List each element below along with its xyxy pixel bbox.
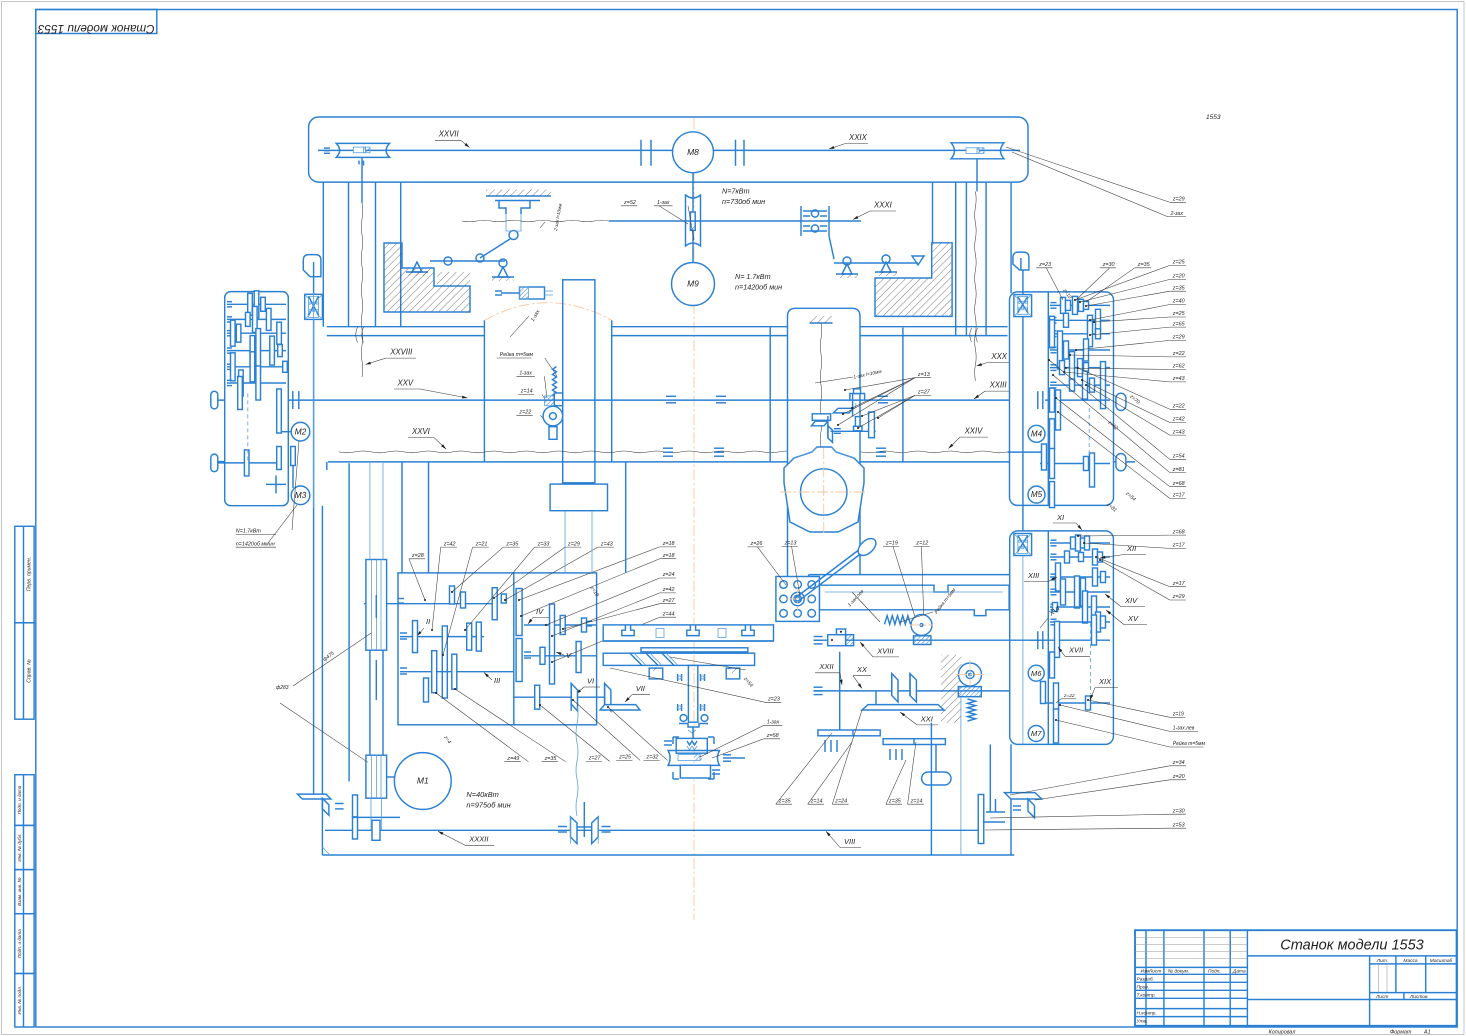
gears on shaft VI: [535, 685, 540, 709]
svg-text:Масса: Масса: [1403, 958, 1418, 964]
octagon crosshair: [780, 491, 868, 493]
column side marks lower: [677, 704, 679, 711]
svg-text:n=730об мин: n=730об мин: [722, 197, 765, 206]
svg-text:z=14: z=14: [520, 389, 533, 395]
belt down to shaft XXXII: [370, 798, 372, 830]
svg-text:z=68: z=68: [1172, 481, 1185, 487]
right tab bracket: [1013, 252, 1029, 270]
svg-text:XIX: XIX: [1098, 677, 1112, 686]
left stamp: Inv. No podl.: [15, 974, 34, 1028]
svg-text:XXIII: XXIII: [989, 381, 1008, 390]
svg-text:z=35: z=35: [1172, 285, 1186, 291]
right gearbox 1 housing: [1010, 292, 1114, 506]
svg-text:z=17: z=17: [1172, 493, 1186, 499]
svg-text:z=22: z=22: [1063, 693, 1075, 699]
svg-text:z=65: z=65: [1172, 321, 1186, 327]
svg-text:VII: VII: [636, 684, 645, 693]
svg-text:z=19: z=19: [885, 541, 898, 547]
saddle bar: [603, 653, 754, 665]
svg-text:Н.контр.: Н.контр.: [1137, 1011, 1157, 1017]
gears on shaft II: [413, 621, 418, 653]
screw bracket: [679, 724, 708, 728]
svg-text:Формат: Формат: [1390, 1030, 1412, 1036]
svg-text:М2: М2: [295, 426, 307, 436]
svg-text:Подп. и дата: Подп. и дата: [17, 929, 22, 958]
svg-text:z=42: z=42: [1172, 417, 1185, 423]
svg-text:z=43: z=43: [1172, 429, 1185, 435]
bottom gear 1 teeth: [824, 740, 826, 752]
bed hatch left: [384, 243, 470, 312]
svg-text:VI: VI: [587, 676, 594, 685]
svg-text:z=43: z=43: [600, 541, 613, 547]
hanger joint circle: [509, 231, 518, 240]
shaft XVIII: [814, 639, 1040, 641]
svg-text:z=22: z=22: [1172, 404, 1185, 410]
svg-text:n=975об мин: n=975об мин: [466, 800, 510, 809]
left screw line through gearbox: [313, 292, 315, 508]
selector lever: [796, 549, 860, 598]
apron upper rail: [809, 574, 1010, 576]
svg-text:Станок модели 1553: Станок модели 1553: [1280, 938, 1424, 954]
svg-text:N= 1.7кВт: N= 1.7кВт: [735, 272, 771, 281]
motor M9: [672, 263, 715, 306]
svg-text:М5: М5: [1031, 490, 1043, 499]
svg-text:z=27: z=27: [917, 390, 931, 396]
svg-text:z=29: z=29: [1172, 335, 1185, 341]
right linkage joints: [843, 257, 851, 265]
svg-text:z=14: z=14: [810, 798, 823, 804]
right linkage link: [829, 236, 834, 259]
bed hatch right: [875, 243, 952, 317]
right end bevel flags: [1005, 793, 1042, 799]
svg-text:z=35: z=35: [544, 756, 558, 762]
hatched wall right: [941, 655, 961, 723]
svg-text:z=17: z=17: [1172, 543, 1186, 549]
gears on XIX row: [1041, 682, 1046, 704]
svg-text:ф283: ф283: [276, 685, 289, 691]
left stamp: Podp. i data 2: [15, 914, 34, 974]
octagon bore circle: [801, 469, 847, 515]
svg-text:z=32: z=32: [646, 755, 659, 761]
left stamp: Inv. No dubl.: [15, 825, 34, 869]
svg-text:z=27: z=27: [662, 598, 676, 604]
svg-text:XXXII: XXXII: [468, 835, 488, 844]
motor M3: [291, 486, 310, 505]
coupling on XXV right: [1037, 391, 1039, 409]
svg-text:М9: М9: [687, 279, 699, 289]
pulley P1 hub ticks: [358, 161, 360, 165]
svg-text:z=30: z=30: [1102, 262, 1115, 268]
bearing pair on XXXI: [800, 206, 802, 236]
left gearbox dashed line: [247, 393, 249, 463]
clamp cylinder: [520, 287, 545, 299]
right vertical screw line 2: [1022, 556, 1024, 744]
shaft II: [400, 636, 484, 638]
stand verticals under bed: [401, 462, 403, 573]
stand left outline: [326, 462, 328, 470]
housing columns center: [769, 327, 771, 462]
svg-text:М1: М1: [417, 776, 429, 786]
svg-text:z=13: z=13: [917, 372, 930, 378]
gear cross mark M3: [266, 483, 286, 485]
shaft IV: [524, 624, 596, 626]
arch centerline: [484, 303, 611, 321]
svg-text:XXVII: XXVII: [438, 130, 460, 139]
svg-text:1-зах.лев: 1-зах.лев: [1173, 726, 1195, 732]
left gearbox shafts and gears: [227, 303, 286, 305]
svg-text:XXVI: XXVI: [411, 427, 431, 436]
leadscrew shaft: [668, 751, 719, 766]
gear z=52 on M8 shaft: [690, 212, 695, 230]
svg-text:z=29: z=29: [1172, 594, 1185, 600]
right screw bearing: [1014, 295, 1032, 317]
left linkage joints: [444, 257, 452, 265]
apron worm wheel: [911, 615, 932, 636]
svg-text:z=44: z=44: [662, 611, 675, 617]
right column under beam: [932, 182, 934, 243]
svg-text:z=18: z=18: [662, 553, 675, 559]
gears on mid shaft: [1042, 444, 1047, 470]
svg-text:1-зах: 1-зах: [657, 200, 670, 206]
centerline main vertical: [693, 118, 695, 920]
svg-text:XXIV: XXIV: [964, 427, 984, 436]
belt column lower pulley: [366, 755, 387, 798]
shifter flag VI: [571, 683, 577, 711]
feed worm block: [958, 687, 981, 697]
right linkage pivot 3 inverted: [912, 256, 924, 265]
svg-text:XI: XI: [1056, 513, 1064, 522]
housing ceiling hatch: [810, 322, 833, 324]
right gearbox mid shaft: [1040, 463, 1110, 465]
coupling K2 on shaft XXIX: [735, 140, 737, 166]
svg-text:XIV: XIV: [1124, 596, 1138, 605]
column side marks upper: [677, 674, 679, 681]
shaft V: [524, 655, 596, 657]
gearbox2 inner partition: [1047, 531, 1049, 744]
svg-text:Дата: Дата: [1232, 969, 1246, 975]
vertical selector shaft: [839, 652, 841, 732]
bottom left outline step: [322, 847, 330, 855]
title block outer: [1135, 930, 1457, 1026]
tall gear between II III lower: [516, 639, 522, 682]
svg-text:N=40кВт: N=40кВт: [466, 790, 498, 799]
svg-text:А1: А1: [1423, 1030, 1431, 1036]
shaft I: [364, 603, 494, 605]
gears on shaft I: [450, 586, 455, 604]
saddle diagonals: [630, 653, 642, 665]
V block left: [649, 668, 663, 679]
left linkage bar: [430, 260, 505, 262]
left linkage pivot 1: [412, 262, 422, 272]
svg-text:z=17: z=17: [1172, 581, 1186, 587]
right end gear on VIII: [978, 795, 984, 844]
svg-text:z=42: z=42: [662, 587, 675, 593]
svg-text:z=18: z=18: [662, 541, 675, 547]
pulley P2 on shaft XXIX: [951, 143, 1004, 159]
svg-text:2-зах: 2-зах: [1170, 211, 1184, 217]
shaft XXV: [211, 391, 218, 409]
svg-text:z=53: z=53: [1172, 822, 1185, 828]
svg-text:z=22: z=22: [1172, 351, 1185, 357]
svg-text:М6: М6: [1031, 669, 1042, 678]
svg-text:Т.контр.: Т.контр.: [1137, 992, 1156, 998]
svg-text:z=49: z=49: [506, 756, 519, 762]
shifter flags XX: [892, 674, 898, 703]
svg-text:М8: М8: [687, 147, 699, 157]
svg-text:z=23: z=23: [767, 697, 780, 703]
right linkage pivot 2: [881, 262, 891, 272]
pulley P1 on shaft XXVII: [336, 143, 389, 157]
shaft XXV break marks: [666, 395, 676, 397]
gear pair right side: [277, 389, 282, 433]
svg-text:XXV: XXV: [397, 379, 414, 388]
belt lines: [369, 650, 371, 755]
svg-text:Инв. № дубл.: Инв. № дубл.: [17, 833, 22, 861]
tower foot: [550, 484, 607, 511]
shaft XXVII line: [318, 149, 693, 151]
svg-text:z=62: z=62: [1172, 364, 1185, 370]
gears on shaft IV: [550, 604, 555, 684]
bevel gear unit on rail: [850, 394, 865, 401]
apron bar: [819, 585, 1009, 615]
svg-text:XVIII: XVIII: [876, 646, 893, 655]
svg-text:Масштаб: Масштаб: [1430, 958, 1453, 964]
central gearbox housing: [398, 573, 597, 725]
svg-text:Листов: Листов: [1409, 994, 1428, 1000]
svg-text:Станок модели 1553: Станок модели 1553: [37, 22, 154, 36]
svg-text:1-зах: 1-зах: [767, 720, 780, 726]
svg-text:z=22: z=22: [518, 410, 531, 416]
gears on shaft V: [540, 647, 545, 664]
shaft XXVII end mark: [324, 147, 330, 149]
feed spring zigzag: [968, 699, 976, 721]
capsule cover 2: [1116, 454, 1126, 471]
stroke wavy 2-zah line: [462, 220, 609, 222]
shaft XIX row: [1043, 702, 1110, 704]
svg-text:XII: XII: [1126, 544, 1136, 553]
shaft XXIV entering gearbox: [1008, 451, 1042, 453]
bottom vertical shaft: [935, 745, 937, 773]
svg-text:Подп. и дата: Подп. и дата: [17, 785, 22, 814]
svg-text:z=26: z=26: [750, 541, 763, 547]
bottom flat gear 2: [883, 739, 945, 745]
svg-text:z=43: z=43: [1172, 376, 1185, 382]
shaft XXV through right gearbox: [1045, 399, 1110, 401]
svg-text:Лит.: Лит.: [1376, 958, 1388, 964]
right vertical screw line: [1022, 270, 1024, 533]
svg-text:z=21: z=21: [475, 541, 488, 547]
machine lower outline verticals: [930, 723, 932, 855]
left belt wavy: [361, 203, 363, 377]
gear at M4: [1050, 419, 1055, 449]
left long verticals: [348, 463, 350, 781]
gear at M5: [1050, 482, 1055, 508]
svg-text:N=1.7кВт: N=1.7кВт: [236, 529, 262, 535]
shaft VI: [514, 696, 604, 698]
svg-text:Подп.: Подп.: [1208, 969, 1221, 975]
svg-text:z=33: z=33: [537, 541, 550, 547]
right screw bearing 2: [1014, 534, 1032, 556]
shaft XXXI: [609, 220, 861, 222]
left bottom gear pair: [353, 795, 358, 817]
motor M8: [673, 132, 714, 173]
motor M5: [1028, 486, 1045, 503]
svg-text:М4: М4: [1031, 429, 1043, 438]
svg-text:III: III: [494, 676, 500, 685]
right gearbox dashed: [1088, 408, 1090, 455]
svg-text:Рейка m=5мм: Рейка m=5мм: [1173, 740, 1206, 747]
shaft XXVI wavy: [218, 461, 225, 463]
apron rack zigzag: [885, 616, 911, 625]
M1 shaft to pulley: [387, 776, 395, 778]
svg-text:XIII: XIII: [1027, 571, 1039, 580]
M2 stub shaft: [281, 431, 291, 433]
leader M2 M3 to text: [268, 505, 297, 543]
svg-text:XXX: XXX: [990, 352, 1007, 361]
left linkage pivot 2: [498, 267, 508, 277]
table T slot bolts: [656, 629, 664, 638]
svg-text:Взам. инв. №: Взам. инв. №: [17, 877, 22, 905]
svg-text:z=68: z=68: [1172, 529, 1185, 535]
svg-text:Справ. №: Справ. №: [27, 659, 33, 683]
shaft XX: [814, 690, 1010, 692]
left gearbox housing: [225, 292, 289, 506]
svg-text:1553: 1553: [1206, 114, 1221, 121]
gears on XVI: [1055, 621, 1060, 657]
central tower column: [563, 280, 595, 483]
right gearbox 2 housing: [1010, 531, 1114, 745]
svg-text:М7: М7: [1031, 729, 1042, 738]
gears on lower shaft 2: [244, 450, 249, 476]
svg-text:z=28: z=28: [411, 553, 424, 559]
thrust balls: [680, 715, 687, 722]
left stamp: Podp. i data 1: [15, 775, 34, 826]
svg-text:z=81: z=81: [1172, 467, 1185, 473]
svg-text:z=23: z=23: [1038, 262, 1051, 268]
detent plate: [776, 577, 820, 622]
table column: [688, 665, 697, 722]
tall gear between I II: [516, 589, 522, 636]
shaft XXIX line: [693, 149, 1020, 151]
gear at M7: [1054, 709, 1059, 743]
svg-text:Инв. № подл.: Инв. № подл.: [17, 986, 22, 1015]
cardan fork: [571, 817, 578, 844]
right belt wavy: [975, 191, 977, 380]
table sub plate: [641, 648, 748, 652]
shaft III: [400, 671, 514, 673]
shaft VIII XXXII: [325, 829, 980, 831]
svg-text:z=25: z=25: [1172, 311, 1186, 317]
svg-text:z=20: z=20: [1172, 274, 1185, 280]
shifter bar VII: [600, 705, 640, 710]
svg-text:XX: XX: [856, 665, 868, 674]
shaft XXVI break marks: [663, 447, 673, 449]
detent holes: [780, 581, 788, 589]
bottom foot stadium: [922, 772, 951, 785]
svg-text:z=24: z=24: [834, 798, 847, 804]
left bottom flag assembly: [298, 794, 331, 799]
leadscrew side dashes: [664, 740, 672, 742]
shaft XXV through housing: [788, 399, 861, 401]
svg-text:Рейка m=5мм: Рейка m=5мм: [500, 351, 534, 358]
left flag marks: [335, 803, 344, 805]
bed top line: [328, 461, 1135, 463]
arch housing sides: [483, 320, 485, 462]
svg-text:XXII: XXII: [818, 662, 833, 671]
svg-text:z=25: z=25: [1172, 260, 1186, 266]
left vertical feed screw line: [313, 277, 315, 782]
svg-text:Перв. примен.: Перв. примен.: [27, 557, 33, 591]
spindle housing box: [788, 308, 861, 585]
motor M7: [1028, 726, 1044, 742]
svg-text:z=29: z=29: [1172, 197, 1185, 203]
svg-text:z=54: z=54: [1172, 454, 1185, 460]
belt column upper pulley: [366, 560, 387, 651]
svg-text:z=20: z=20: [1172, 774, 1185, 780]
svg-text:z=30: z=30: [1172, 808, 1185, 814]
left shaft2 end cap: [211, 454, 218, 472]
svg-text:z=12: z=12: [915, 541, 928, 547]
pulley P2 key: [966, 148, 979, 154]
svg-text:n=1420об мин: n=1420об мин: [735, 283, 782, 292]
svg-text:XVII: XVII: [1068, 646, 1083, 655]
motor M6: [1028, 665, 1044, 681]
right linkage bar: [834, 262, 918, 264]
leadscrew nut box: [676, 738, 707, 753]
gears on XXV right: [1050, 388, 1055, 412]
motor M4: [1028, 425, 1045, 442]
left linkage link: [480, 239, 510, 258]
right gearbox 1 shafts: [1050, 304, 1110, 306]
right gearbox 2 dashed: [1090, 623, 1092, 694]
housing cap lines: [327, 326, 485, 328]
bed bottom outline: [322, 854, 1014, 856]
svg-text:VIII: VIII: [844, 837, 855, 846]
svg-text:II: II: [426, 617, 430, 626]
left column under beam: [322, 182, 324, 327]
rack vertical zigzag: [553, 367, 557, 398]
left stamp: Sprav. No: [15, 623, 34, 719]
motor M2: [291, 422, 310, 441]
gear z=22 tail: [549, 427, 557, 440]
cardan side marks: [558, 826, 567, 828]
leadscrew key: [678, 755, 700, 761]
hanger bracket: [499, 201, 530, 215]
detent center: [791, 592, 804, 605]
svg-text:1-зах: 1-зах: [519, 371, 532, 377]
gearbox1 inner partition: [1047, 292, 1049, 505]
svg-text:Утв.: Утв.: [1137, 1019, 1148, 1025]
gear at M6: [1050, 652, 1055, 678]
svg-text:Разраб.: Разраб.: [1137, 976, 1154, 982]
coupling K1 on shaft XXVII: [640, 140, 642, 166]
leadscrew corner marks: [673, 737, 714, 744]
svg-text:z=19: z=19: [1172, 712, 1184, 718]
svg-text:Копировал: Копировал: [1269, 1030, 1296, 1036]
svg-text:z=25: z=25: [618, 755, 632, 761]
svg-text:z=14: z=14: [910, 798, 923, 804]
gear z=22 circle: [543, 406, 563, 426]
vertical pulley on M8 shaft: [686, 195, 701, 246]
shifter bar XX: [862, 705, 944, 710]
V block right: [726, 668, 740, 679]
right linkage pivot 1: [842, 264, 852, 274]
workpiece octagon: [784, 447, 864, 532]
central gearbox divider: [513, 573, 515, 725]
capsule cover 1: [1116, 393, 1126, 410]
lever ball: [855, 535, 879, 558]
bevel cross on XVIII: [828, 635, 846, 646]
